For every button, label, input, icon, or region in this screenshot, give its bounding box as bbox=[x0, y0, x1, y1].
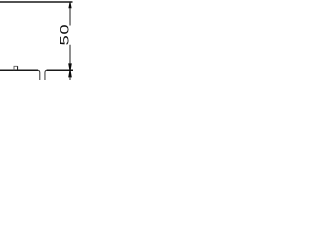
dimension line upper segment bbox=[69, 3, 71, 26]
top surface object line bbox=[0, 1, 73, 3]
slot left wall with rounded shoulder bbox=[38, 70, 40, 80]
dimension arrow top bbox=[68, 2, 71, 8]
dimension arrow bottom (points down) bbox=[68, 63, 72, 70]
second dimension line stub bbox=[69, 77, 71, 81]
dimension line lower segment bbox=[69, 45, 71, 70]
small tab rectangle on surface bbox=[14, 66, 18, 70]
second dimension arrow below line (points up) bbox=[68, 70, 72, 77]
slot right wall with rounded shoulder bbox=[45, 70, 47, 80]
svg-text:50: 50 bbox=[58, 24, 71, 46]
bottom surface object line (left of slot) bbox=[0, 69, 38, 71]
small tab right edge bbox=[17, 66, 19, 70]
bottom surface object line (right of slot) bbox=[47, 69, 73, 71]
